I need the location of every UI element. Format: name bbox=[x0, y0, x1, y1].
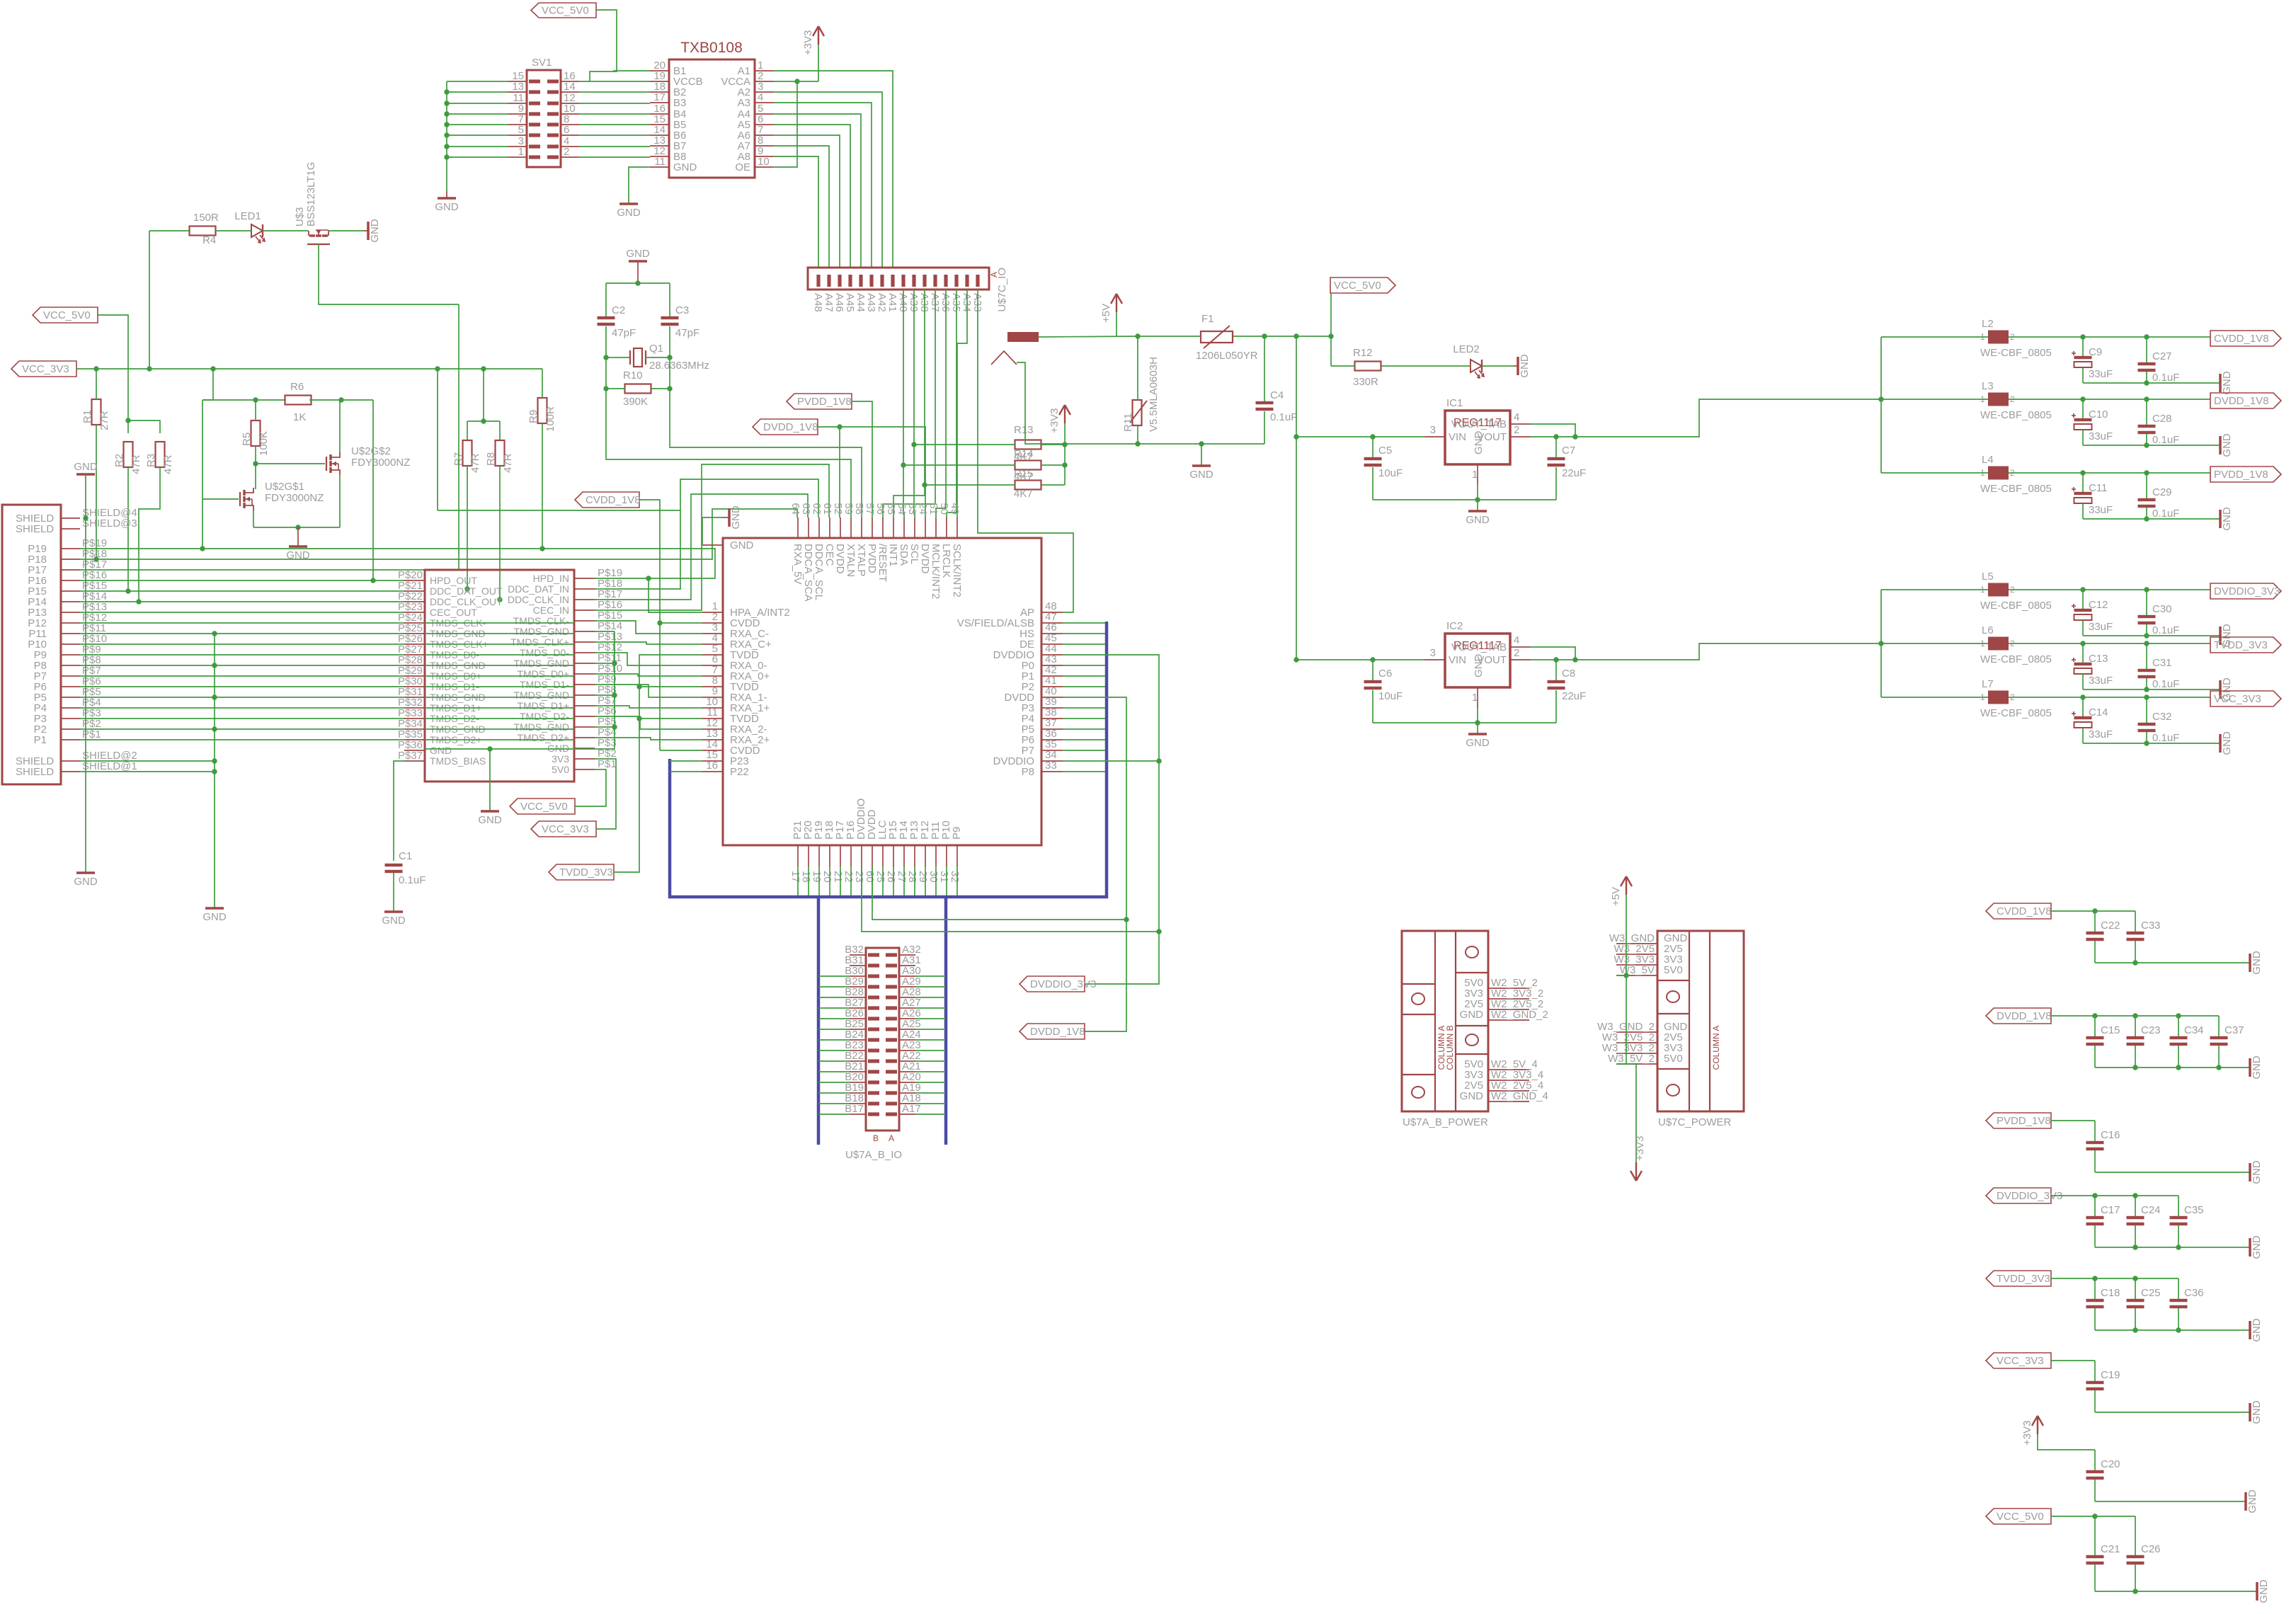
svg-text:VCC_5V0: VCC_5V0 bbox=[520, 801, 568, 813]
svg-text:TMDS_CLK-: TMDS_CLK- bbox=[513, 615, 570, 626]
svg-text:A47: A47 bbox=[823, 293, 835, 312]
resistor R13 bbox=[1015, 440, 1041, 450]
net flag VCC_5V0 (buffer) bbox=[510, 799, 575, 814]
wire A39 to SCL bbox=[914, 290, 915, 517]
svg-text:4: 4 bbox=[1514, 411, 1519, 423]
wire VCC_3V3 trunk bbox=[76, 368, 542, 370]
U$7C_IO pin A46 bbox=[838, 275, 841, 287]
receiver pin 55 INT1 bbox=[893, 517, 894, 538]
net flag TVDD_3V3 bbox=[2210, 637, 2281, 653]
U$7C_IO pin A37 bbox=[933, 275, 937, 287]
pin P18 bbox=[61, 559, 80, 560]
U$7C_IO pin A42 bbox=[880, 275, 884, 287]
svg-text:PVDD_1V8: PVDD_1V8 bbox=[797, 396, 852, 408]
svg-text:C11: C11 bbox=[2089, 482, 2107, 494]
pin P10 bbox=[61, 643, 80, 645]
svg-text:TMDS_GND: TMDS_GND bbox=[513, 626, 569, 637]
svg-text:SHIELD@3: SHIELD@3 bbox=[82, 517, 137, 530]
receiver pin 11 TVDD bbox=[702, 718, 723, 719]
TXB0108 pin 4 A3 bbox=[755, 102, 773, 103]
svg-text:3: 3 bbox=[1430, 424, 1436, 436]
svg-text:PVDD: PVDD bbox=[866, 544, 878, 573]
wire A38 to INT1 bbox=[893, 290, 925, 517]
capacitor C29 0.1uF bbox=[2146, 473, 2147, 498]
buffer pin P$13 TMDS_CLK+ bbox=[574, 641, 595, 643]
wire DVDDIO pin44 to flag bbox=[1063, 655, 1159, 984]
net flag TVDD_3V3 (left) bbox=[549, 864, 614, 880]
svg-text:C17: C17 bbox=[2101, 1204, 2120, 1216]
wire TVDD_3V3 top rail bbox=[2051, 1278, 2178, 1279]
buffer pin P$34 TMDS_GND bbox=[404, 728, 425, 730]
TXB0108 pin 17 B3 bbox=[650, 102, 669, 103]
pin P19 bbox=[61, 548, 80, 549]
svg-text:C35: C35 bbox=[2184, 1204, 2204, 1216]
capacitor C5 10uF bbox=[1372, 437, 1373, 457]
wire A36 to MCLK/INT2 bbox=[936, 290, 946, 517]
svg-text:P$1: P$1 bbox=[82, 728, 101, 740]
wire HPD_IN riser to HPA pin1 bbox=[649, 578, 702, 612]
wire TMDS_BIAS to C1 bbox=[394, 761, 404, 861]
svg-text:TXB0108: TXB0108 bbox=[680, 40, 743, 56]
svg-text:47pF: 47pF bbox=[675, 327, 699, 339]
ground symbol bottom left bbox=[76, 871, 95, 874]
wires P rows to HDMI buffer box bbox=[80, 580, 404, 581]
wire R15 row bbox=[925, 484, 1015, 486]
svg-text:GND: GND bbox=[730, 539, 754, 551]
buffer pin P$23 CEC_OUT bbox=[404, 612, 425, 613]
svg-text:54: 54 bbox=[896, 503, 908, 515]
svg-text:L4: L4 bbox=[1982, 454, 1994, 466]
wire +5V to regulators bbox=[1296, 336, 1297, 660]
buffer pin P$21 DDC_DAT_OUT bbox=[404, 590, 425, 592]
wire XTALN from crystal bbox=[606, 389, 851, 517]
svg-text:16: 16 bbox=[706, 760, 718, 772]
svg-text:VOUT_TAB: VOUT_TAB bbox=[1451, 641, 1507, 653]
wire CVDD_1V8 top rail bbox=[2051, 910, 2135, 912]
U$7C_IO pin A33 bbox=[976, 275, 979, 287]
buffer pin P$26 TMDS_CLK+ bbox=[404, 643, 425, 645]
wire GND row through box bbox=[425, 748, 615, 750]
wire PVDD_1V8 top rail bbox=[2051, 1120, 2095, 1121]
buffer pin P$30 TMDS_D1- bbox=[404, 686, 425, 687]
LED LED1 bbox=[251, 224, 263, 237]
wire VCC_5V0 gnd rail bbox=[2095, 1591, 2257, 1592]
svg-text:R3: R3 bbox=[145, 454, 157, 467]
SV1 pin 6 (right) bbox=[561, 134, 579, 136]
svg-text:28.6363MHz: 28.6363MHz bbox=[649, 360, 709, 372]
SV1 pin 14 (right) bbox=[561, 91, 579, 93]
power +5V arrow bbox=[1116, 294, 1117, 312]
pin P7 bbox=[61, 675, 80, 677]
svg-text:GND: GND bbox=[2221, 433, 2233, 457]
svg-text:U$7C_POWER: U$7C_POWER bbox=[1658, 1116, 1732, 1128]
svg-text:U$7A_B_POWER: U$7A_B_POWER bbox=[1403, 1116, 1488, 1128]
wires P23 P22 to bus bbox=[670, 760, 702, 762]
svg-text:1: 1 bbox=[1472, 692, 1478, 704]
svg-text:LED2: LED2 bbox=[1453, 343, 1480, 355]
svg-text:3V3: 3V3 bbox=[552, 753, 569, 765]
capacitor C3 bbox=[661, 316, 679, 319]
capacitor C16 bbox=[2094, 1121, 2096, 1141]
svg-text:49: 49 bbox=[949, 503, 961, 515]
pin P17 bbox=[61, 569, 80, 571]
power +3V3 arrow (TXB VCCA) bbox=[818, 26, 819, 45]
TXB0108 pin 6 A5 bbox=[755, 124, 773, 125]
SV1 pin 11 (left) bbox=[508, 103, 527, 104]
svg-text:DVDDIO_3V3: DVDDIO_3V3 bbox=[1030, 978, 1096, 990]
svg-text:10uF: 10uF bbox=[1378, 690, 1403, 702]
U$7A_B_IO pin B23 bbox=[850, 1050, 866, 1051]
buffer pin P$2 3V3 bbox=[574, 758, 595, 760]
svg-text:LED1: LED1 bbox=[234, 210, 261, 222]
wire R9 to HPD_IN row bbox=[542, 423, 543, 549]
receiver pin 37 P5 bbox=[1041, 728, 1063, 730]
receiver pin 5 TVDD bbox=[702, 654, 723, 656]
TXB0108 pin 14 B6 bbox=[650, 134, 669, 136]
capacitor C32 0.1uF bbox=[2146, 697, 2147, 723]
TXB0108 pin 20 B1 bbox=[650, 70, 669, 71]
pin SHIELD@2 bbox=[61, 760, 80, 762]
svg-text:GND: GND bbox=[74, 876, 98, 888]
svg-text:47R: 47R bbox=[162, 454, 174, 474]
wires TXB A outputs to U$7C_IO staircase bbox=[773, 71, 893, 268]
svg-text:GND: GND bbox=[1189, 469, 1213, 481]
receiver pin 36 P6 bbox=[1041, 739, 1063, 740]
buffer pin P$20 HPD_OUT bbox=[404, 580, 425, 581]
net flag PVDD_1V8 (bypass) bbox=[1986, 1113, 2051, 1128]
connector U$7A_B_IO bbox=[866, 948, 899, 1131]
svg-text:0.1uF: 0.1uF bbox=[2152, 732, 2179, 744]
wire VCC_3V3 to 3V3 pin bbox=[595, 759, 616, 829]
fuse F1 1206L050YR bbox=[1201, 331, 1233, 343]
svg-text:GND: GND bbox=[2251, 1055, 2263, 1080]
svg-text:6: 6 bbox=[564, 124, 569, 136]
ground symbol IC2 bbox=[1477, 723, 1478, 734]
capacitor C30 0.1uF bbox=[2146, 590, 2147, 615]
U$7C_IO pin A38 bbox=[923, 275, 926, 287]
svg-text:0.1uF: 0.1uF bbox=[2152, 508, 2179, 520]
svg-text:CVDD_1V8: CVDD_1V8 bbox=[586, 494, 641, 506]
capacitor C33 bbox=[2135, 911, 2136, 932]
transistor U$2G$1 FDY3000NZ bbox=[239, 492, 241, 506]
svg-text:24: 24 bbox=[917, 503, 929, 515]
svg-text:INT1: INT1 bbox=[887, 544, 899, 567]
wire VIN line IC1 bbox=[1296, 436, 1424, 437]
wire L2 row bbox=[1881, 336, 1988, 338]
wire flag to rail and R12 bbox=[1330, 293, 1332, 366]
capacitor C22 bbox=[2094, 911, 2096, 932]
svg-text:C3: C3 bbox=[675, 304, 689, 316]
net flag DVDD_1V8 (bypass) bbox=[1986, 1008, 2051, 1024]
receiver pin 51 MCLK/INT2 bbox=[935, 517, 937, 538]
svg-text:C9: C9 bbox=[2089, 346, 2102, 358]
capacitor C21 bbox=[2094, 1516, 2096, 1555]
wire DDCA feed line bbox=[437, 369, 438, 510]
svg-text:U$2G$2: U$2G$2 bbox=[351, 445, 391, 457]
buffer pin P$7 TMDS_D1+ bbox=[574, 705, 595, 706]
svg-text:GND: GND bbox=[2251, 1160, 2263, 1184]
receiver pin 21 P17 bbox=[840, 845, 841, 866]
svg-text:XTALN: XTALN bbox=[845, 544, 857, 577]
U$7A_B_IO pin A31 bbox=[899, 965, 915, 966]
net flag CVDD_1V8 bbox=[2210, 331, 2281, 346]
resistor R1 27R bbox=[92, 399, 101, 425]
svg-text:2: 2 bbox=[1514, 647, 1519, 659]
wire VIN line IC2 bbox=[1296, 659, 1424, 660]
receiver pin 50 LRCLK bbox=[946, 517, 947, 538]
svg-text:TMDS_GND: TMDS_GND bbox=[513, 658, 569, 669]
net flag DVDDIO_3V3 bbox=[2210, 583, 2281, 599]
svg-text:VCC_5V0: VCC_5V0 bbox=[1997, 1511, 2044, 1523]
svg-text:L2: L2 bbox=[1982, 318, 1994, 330]
svg-text:B17: B17 bbox=[845, 1103, 864, 1115]
svg-text:58: 58 bbox=[853, 503, 865, 515]
svg-text:C34: C34 bbox=[2184, 1024, 2204, 1036]
svg-text:C30: C30 bbox=[2152, 603, 2172, 615]
inductor L7 WE-CBF_0805 bbox=[1988, 691, 2009, 704]
wire A40 to SDA bbox=[903, 290, 904, 517]
ground symbol VCC_5V0 bypass bbox=[2256, 1582, 2258, 1601]
svg-text:CEC_OUT: CEC_OUT bbox=[430, 607, 477, 618]
svg-text:VCC_5V0: VCC_5V0 bbox=[1334, 280, 1381, 292]
receiver pin 57 PVDD bbox=[872, 517, 873, 538]
svg-text:C1: C1 bbox=[399, 850, 412, 862]
IC1 pin 2 VOUT bbox=[1510, 436, 1531, 437]
svg-text:DDC_CLK_IN: DDC_CLK_IN bbox=[508, 594, 569, 605]
svg-text:SCLK/INT2: SCLK/INT2 bbox=[951, 544, 963, 597]
wire C20 gnd rail bbox=[2095, 1501, 2246, 1502]
svg-text:GND: GND bbox=[2251, 1235, 2263, 1259]
wire XTALP from crystal bbox=[670, 389, 862, 517]
capacitor C20 bbox=[2094, 1450, 2096, 1470]
wire VCC_3V3 gnd rail bbox=[2095, 1412, 2250, 1413]
svg-text:32: 32 bbox=[949, 871, 961, 883]
receiver pin 64 RXA_5V bbox=[797, 517, 799, 538]
svg-text:L7: L7 bbox=[1982, 678, 1994, 690]
receiver pin 6 RXA_0- bbox=[702, 665, 723, 666]
receiver pin 31 P10 bbox=[946, 845, 947, 866]
svg-text:TMDS_D2+: TMDS_D2+ bbox=[517, 732, 569, 743]
svg-text:A46: A46 bbox=[833, 293, 845, 312]
receiver pin 17 P21 bbox=[797, 845, 799, 866]
capacitor C28 0.1uF bbox=[2146, 399, 2147, 425]
wire A37 to /RESET bbox=[883, 290, 935, 517]
wire VCC_5V0 to 5V0 pin bbox=[575, 769, 606, 806]
svg-text:PVDD_1V8: PVDD_1V8 bbox=[2214, 469, 2268, 481]
net flag VCC_3V3 (left) bbox=[11, 361, 76, 377]
wire L5 gnd rail bbox=[2083, 635, 2220, 636]
wire R4 to LED1 bbox=[216, 230, 251, 231]
svg-text:C23: C23 bbox=[2141, 1024, 2161, 1036]
wire DVDD pin40 to flag bbox=[1063, 697, 1126, 1031]
buffer pin P$19 HPD_IN bbox=[574, 578, 595, 579]
svg-text:5V0: 5V0 bbox=[1664, 964, 1683, 976]
receiver pin 2 CVDD bbox=[702, 622, 723, 624]
svg-text:0.1uF: 0.1uF bbox=[2152, 372, 2179, 384]
capacitor C10 33uF bbox=[2082, 399, 2084, 418]
svg-text:A: A bbox=[889, 1133, 894, 1143]
svg-text:C16: C16 bbox=[2101, 1129, 2120, 1141]
wires TMDS_GND rows through box to gnd bus bbox=[425, 633, 574, 634]
ground symbol under C1 bbox=[384, 910, 403, 913]
svg-text:F1: F1 bbox=[1201, 313, 1214, 325]
svg-text:150R: 150R bbox=[193, 212, 219, 224]
svg-text:28: 28 bbox=[906, 871, 918, 883]
svg-text:L5: L5 bbox=[1982, 571, 1994, 583]
svg-text:DVDD: DVDD bbox=[834, 544, 846, 574]
U$7A_B_IO pin A22 bbox=[899, 1060, 915, 1062]
svg-text:VCC_3V3: VCC_3V3 bbox=[542, 823, 589, 835]
svg-text:A41: A41 bbox=[886, 293, 898, 312]
svg-text:10uF: 10uF bbox=[1378, 467, 1403, 479]
svg-text:U$7C_IO: U$7C_IO bbox=[996, 268, 1008, 312]
receiver pin 7 RXA_0+ bbox=[702, 675, 723, 677]
svg-text:4K7: 4K7 bbox=[1014, 488, 1033, 500]
U$7A_B_IO pin B22 bbox=[850, 1060, 866, 1062]
svg-text:C27: C27 bbox=[2152, 350, 2172, 362]
svg-text:GND: GND bbox=[617, 207, 641, 219]
svg-text:TVDD_3V3: TVDD_3V3 bbox=[1997, 1273, 2050, 1285]
svg-text:GND: GND bbox=[478, 814, 502, 826]
svg-text:+3V3: +3V3 bbox=[2021, 1421, 2033, 1446]
svg-text:1: 1 bbox=[518, 146, 524, 158]
svg-text:P$1: P$1 bbox=[598, 758, 617, 770]
receiver pin 16 P22 bbox=[702, 771, 723, 772]
svg-text:2: 2 bbox=[1514, 424, 1519, 436]
svg-text:+3V3: +3V3 bbox=[802, 30, 814, 55]
net flag VCC_5V0 (left) bbox=[33, 307, 98, 323]
svg-text:GND: GND bbox=[2221, 731, 2233, 755]
transistor U$2G$2 FDY3000NZ bbox=[326, 457, 327, 471]
power +5V arrow (header) bbox=[1626, 876, 1627, 895]
capacitor C8 22uF bbox=[1555, 660, 1557, 680]
inductor L5 WE-CBF_0805 bbox=[1988, 583, 2009, 597]
svg-text:DVDD_1V8: DVDD_1V8 bbox=[2214, 395, 2269, 407]
receiver pin 45 DE bbox=[1041, 643, 1063, 645]
SV1 pin 4 (right) bbox=[561, 146, 579, 147]
svg-text:DVDD: DVDD bbox=[919, 544, 931, 574]
svg-text:52: 52 bbox=[832, 503, 844, 515]
svg-text:100K: 100K bbox=[258, 431, 270, 456]
wire to R4 bbox=[149, 230, 189, 231]
receiver pin 19 P19 bbox=[818, 845, 820, 866]
TXB0108 pin 5 A4 bbox=[755, 113, 773, 115]
svg-text:GND: GND bbox=[1460, 1009, 1484, 1021]
U$7A_B_IO pin B20 bbox=[850, 1082, 866, 1083]
SV1 pin 9 (left) bbox=[508, 113, 527, 115]
SV1 pin 10 (right) bbox=[561, 113, 579, 115]
wire TVDD_3V3 to TVDD pins bbox=[614, 655, 702, 872]
svg-text:C37: C37 bbox=[2224, 1024, 2244, 1036]
IC TXB0108 bbox=[669, 59, 755, 178]
svg-text:C31: C31 bbox=[2152, 657, 2172, 669]
U$7C_IO pin A35 bbox=[954, 275, 958, 287]
wire SV1 left pins to GND bus bbox=[447, 81, 508, 82]
connector SV1 bbox=[527, 70, 561, 167]
wire TMDS_GND collector bbox=[214, 634, 215, 908]
buffer pin P$28 TMDS_GND bbox=[404, 665, 425, 666]
wires receiver right pins to bus bbox=[1063, 622, 1105, 624]
capacitor C31 0.1uF bbox=[2146, 643, 2147, 669]
svg-text:0.1uF: 0.1uF bbox=[2152, 434, 2179, 446]
resistor R3 47R bbox=[156, 442, 165, 467]
svg-text:+3V3: +3V3 bbox=[1049, 408, 1061, 433]
svg-text:U$7A_B_IO: U$7A_B_IO bbox=[845, 1149, 902, 1161]
U$7C_IO pin A39 bbox=[912, 275, 915, 287]
U$7A_B_IO pin A32 bbox=[899, 954, 915, 956]
svg-text:0.1uF: 0.1uF bbox=[399, 874, 425, 886]
pin P5 bbox=[61, 697, 80, 698]
net flag VCC_5V0 (top) bbox=[531, 3, 596, 18]
capacitor C18 bbox=[2094, 1278, 2096, 1299]
svg-text:5V0: 5V0 bbox=[1664, 1053, 1683, 1065]
svg-text:GND: GND bbox=[1466, 737, 1490, 749]
buffer pin P$12 TMDS_D0- bbox=[574, 652, 595, 653]
wire CVDD_1V8 gnd rail bbox=[2095, 962, 2250, 963]
wire DVDD_1V8 to DVDD pins bbox=[818, 427, 840, 517]
capacitor C9 33uF bbox=[2082, 337, 2084, 356]
U$7A_B_IO pin B18 bbox=[850, 1103, 866, 1104]
svg-text:22uF: 22uF bbox=[1562, 690, 1586, 702]
svg-text:A17: A17 bbox=[902, 1103, 921, 1115]
svg-text:VCC_5V0: VCC_5V0 bbox=[542, 5, 589, 17]
varistor R11 bbox=[1133, 400, 1142, 425]
resistor R4 150R bbox=[190, 227, 216, 236]
ground symbol VCC_3V3 bypass bbox=[2249, 1403, 2251, 1421]
svg-text:FDY3000NZ: FDY3000NZ bbox=[265, 492, 324, 504]
U$7A_B_IO pin B28 bbox=[850, 997, 866, 998]
capacitor C7 22uF bbox=[1555, 437, 1557, 457]
receiver pin 60 DVDD bbox=[872, 845, 873, 866]
receiver pin 8 TVDD bbox=[702, 686, 723, 687]
svg-text:14: 14 bbox=[564, 81, 576, 93]
wire L4 row bbox=[1881, 472, 1988, 474]
SV1 pin 7 (left) bbox=[508, 124, 527, 125]
wire DDC_DAT_IN riser to DDCA_SCL bbox=[595, 479, 818, 589]
receiver pin 4 RXA_C+ bbox=[702, 643, 723, 645]
svg-text:W2_GND_2: W2_GND_2 bbox=[1491, 1009, 1548, 1021]
receiver pin 14 CVDD bbox=[702, 750, 723, 751]
svg-text:GND: GND bbox=[74, 461, 98, 473]
pin P2 bbox=[61, 728, 80, 730]
ground symbol PVDD_1V8 bypass bbox=[2249, 1163, 2251, 1181]
capacitor C27 0.1uF bbox=[2146, 337, 2147, 362]
TXB0108 pin 18 B2 bbox=[650, 91, 669, 93]
wire VCC_3V3 to R9 bbox=[542, 369, 543, 398]
svg-text:COLUMN B: COLUMN B bbox=[1445, 1025, 1455, 1070]
svg-text:WE-CBF_0805: WE-CBF_0805 bbox=[1980, 347, 2052, 359]
wire TXB GND pin to ground bbox=[629, 167, 650, 204]
wire DVDDIO_3V3 gnd rail bbox=[2095, 1247, 2250, 1248]
svg-text:GND: GND bbox=[2221, 507, 2233, 531]
svg-text:4K7: 4K7 bbox=[1014, 471, 1033, 483]
receiver pin 15 P23 bbox=[702, 760, 723, 762]
wire A35 to LRCLK bbox=[947, 290, 956, 517]
svg-text:GND: GND bbox=[1466, 514, 1490, 526]
svg-text:C29: C29 bbox=[2152, 486, 2172, 498]
buffer pin P$17 DDC_CLK_IN bbox=[574, 599, 595, 600]
receiver pin 44 DVDDIO bbox=[1041, 654, 1063, 656]
receiver pin 56 /RESET bbox=[882, 517, 884, 538]
U$7A_B_IO pin B31 bbox=[850, 965, 866, 966]
svg-text:3: 3 bbox=[1430, 647, 1436, 659]
svg-text:100R: 100R bbox=[544, 406, 556, 432]
svg-text:A43: A43 bbox=[865, 293, 877, 312]
svg-text:B3: B3 bbox=[673, 97, 686, 109]
resistor R2 47R bbox=[124, 442, 133, 467]
svg-text:P8: P8 bbox=[1022, 766, 1034, 778]
svg-text:DVDD_1V8: DVDD_1V8 bbox=[1030, 1026, 1085, 1038]
